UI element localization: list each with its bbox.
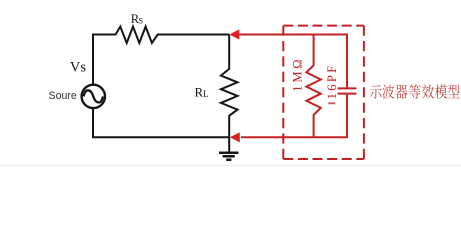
svg-text:Soure: Soure [49, 90, 77, 102]
svg-text:16PF: 16PF [325, 63, 339, 99]
svg-text:1MΩ: 1MΩ [290, 57, 304, 92]
svg-text:RL: RL [195, 85, 209, 99]
svg-text:Vs: Vs [70, 60, 86, 76]
svg-text:RS: RS [131, 12, 144, 26]
